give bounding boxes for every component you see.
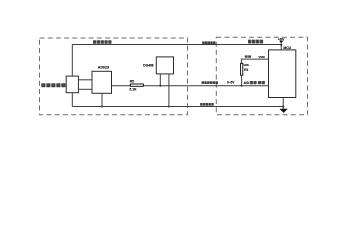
MCU box	[269, 50, 296, 98]
right dashed enclosure (host section)	[216, 37, 307, 115]
wire: sensor top vertical	[71, 45, 73, 77]
right box title 主机部分	[248, 40, 263, 44]
wire: sensor to AD623 upper	[78, 79, 92, 81]
label A/D转换输入	[244, 81, 265, 85]
label 电源线(红)	[202, 41, 215, 44]
junction dot AD623-ground	[101, 106, 103, 108]
wire: DG408 pin to signal line	[159, 74, 161, 86]
wire: AD623 output to R5	[112, 85, 131, 87]
wire: ground bus (black)	[72, 106, 283, 108]
pressure sensor box	[66, 76, 78, 93]
op-amp U1 AD623 box	[92, 71, 112, 93]
wire: power line (red) from sensor to MCU	[72, 44, 281, 46]
svg-text:MCU: MCU	[283, 46, 291, 50]
wire: sensor bottom vertical	[71, 93, 73, 107]
resistor R5	[130, 84, 143, 86]
junction dot R1-signal	[241, 85, 243, 87]
junction dot DG408-signal	[159, 85, 161, 87]
left box title 变送器部分	[93, 40, 112, 44]
left dashed enclosure (transmitter section)	[40, 38, 188, 115]
resistor R1 (pull-up)	[241, 63, 243, 75]
svg-text:A/D: A/D	[244, 81, 250, 85]
svg-text:5.1K: 5.1K	[129, 88, 137, 92]
svg-text:0~5V: 0~5V	[227, 80, 235, 84]
wire: sensor to AD623 lower	[78, 88, 92, 90]
svg-text:AD623: AD623	[98, 66, 109, 70]
wire: +5V stub into MCU	[280, 43, 282, 50]
svg-text:R5: R5	[130, 79, 134, 83]
wire: MCU ground pin	[282, 98, 284, 110]
wire: signal line to MCU	[143, 85, 268, 87]
wire: R1 bottom to signal line	[241, 75, 243, 86]
svg-text:10K: 10K	[243, 63, 249, 67]
junction dot DG408-ground	[168, 106, 170, 108]
svg-text:R1: R1	[244, 68, 248, 72]
svg-text:VDD: VDD	[259, 55, 266, 59]
wire: DG408 pin to ground bus	[168, 74, 170, 107]
wire: VDD pull-up pin line	[241, 59, 268, 63]
+5V power flag	[279, 41, 283, 43]
label 电源地(黑)	[200, 103, 214, 106]
ground arrow	[279, 109, 287, 113]
label 压力传感器	[41, 83, 65, 87]
wire: AD623 bottom to ground bus	[101, 93, 103, 106]
multiplexer U2 DG408 box	[156, 57, 173, 74]
junction dot power-MCU	[280, 44, 282, 46]
label 上拉	[245, 55, 251, 57]
svg-text:DG408: DG408	[143, 64, 153, 68]
label 信号输出(黄)	[202, 81, 219, 84]
junction dot ground bus end	[282, 106, 284, 108]
